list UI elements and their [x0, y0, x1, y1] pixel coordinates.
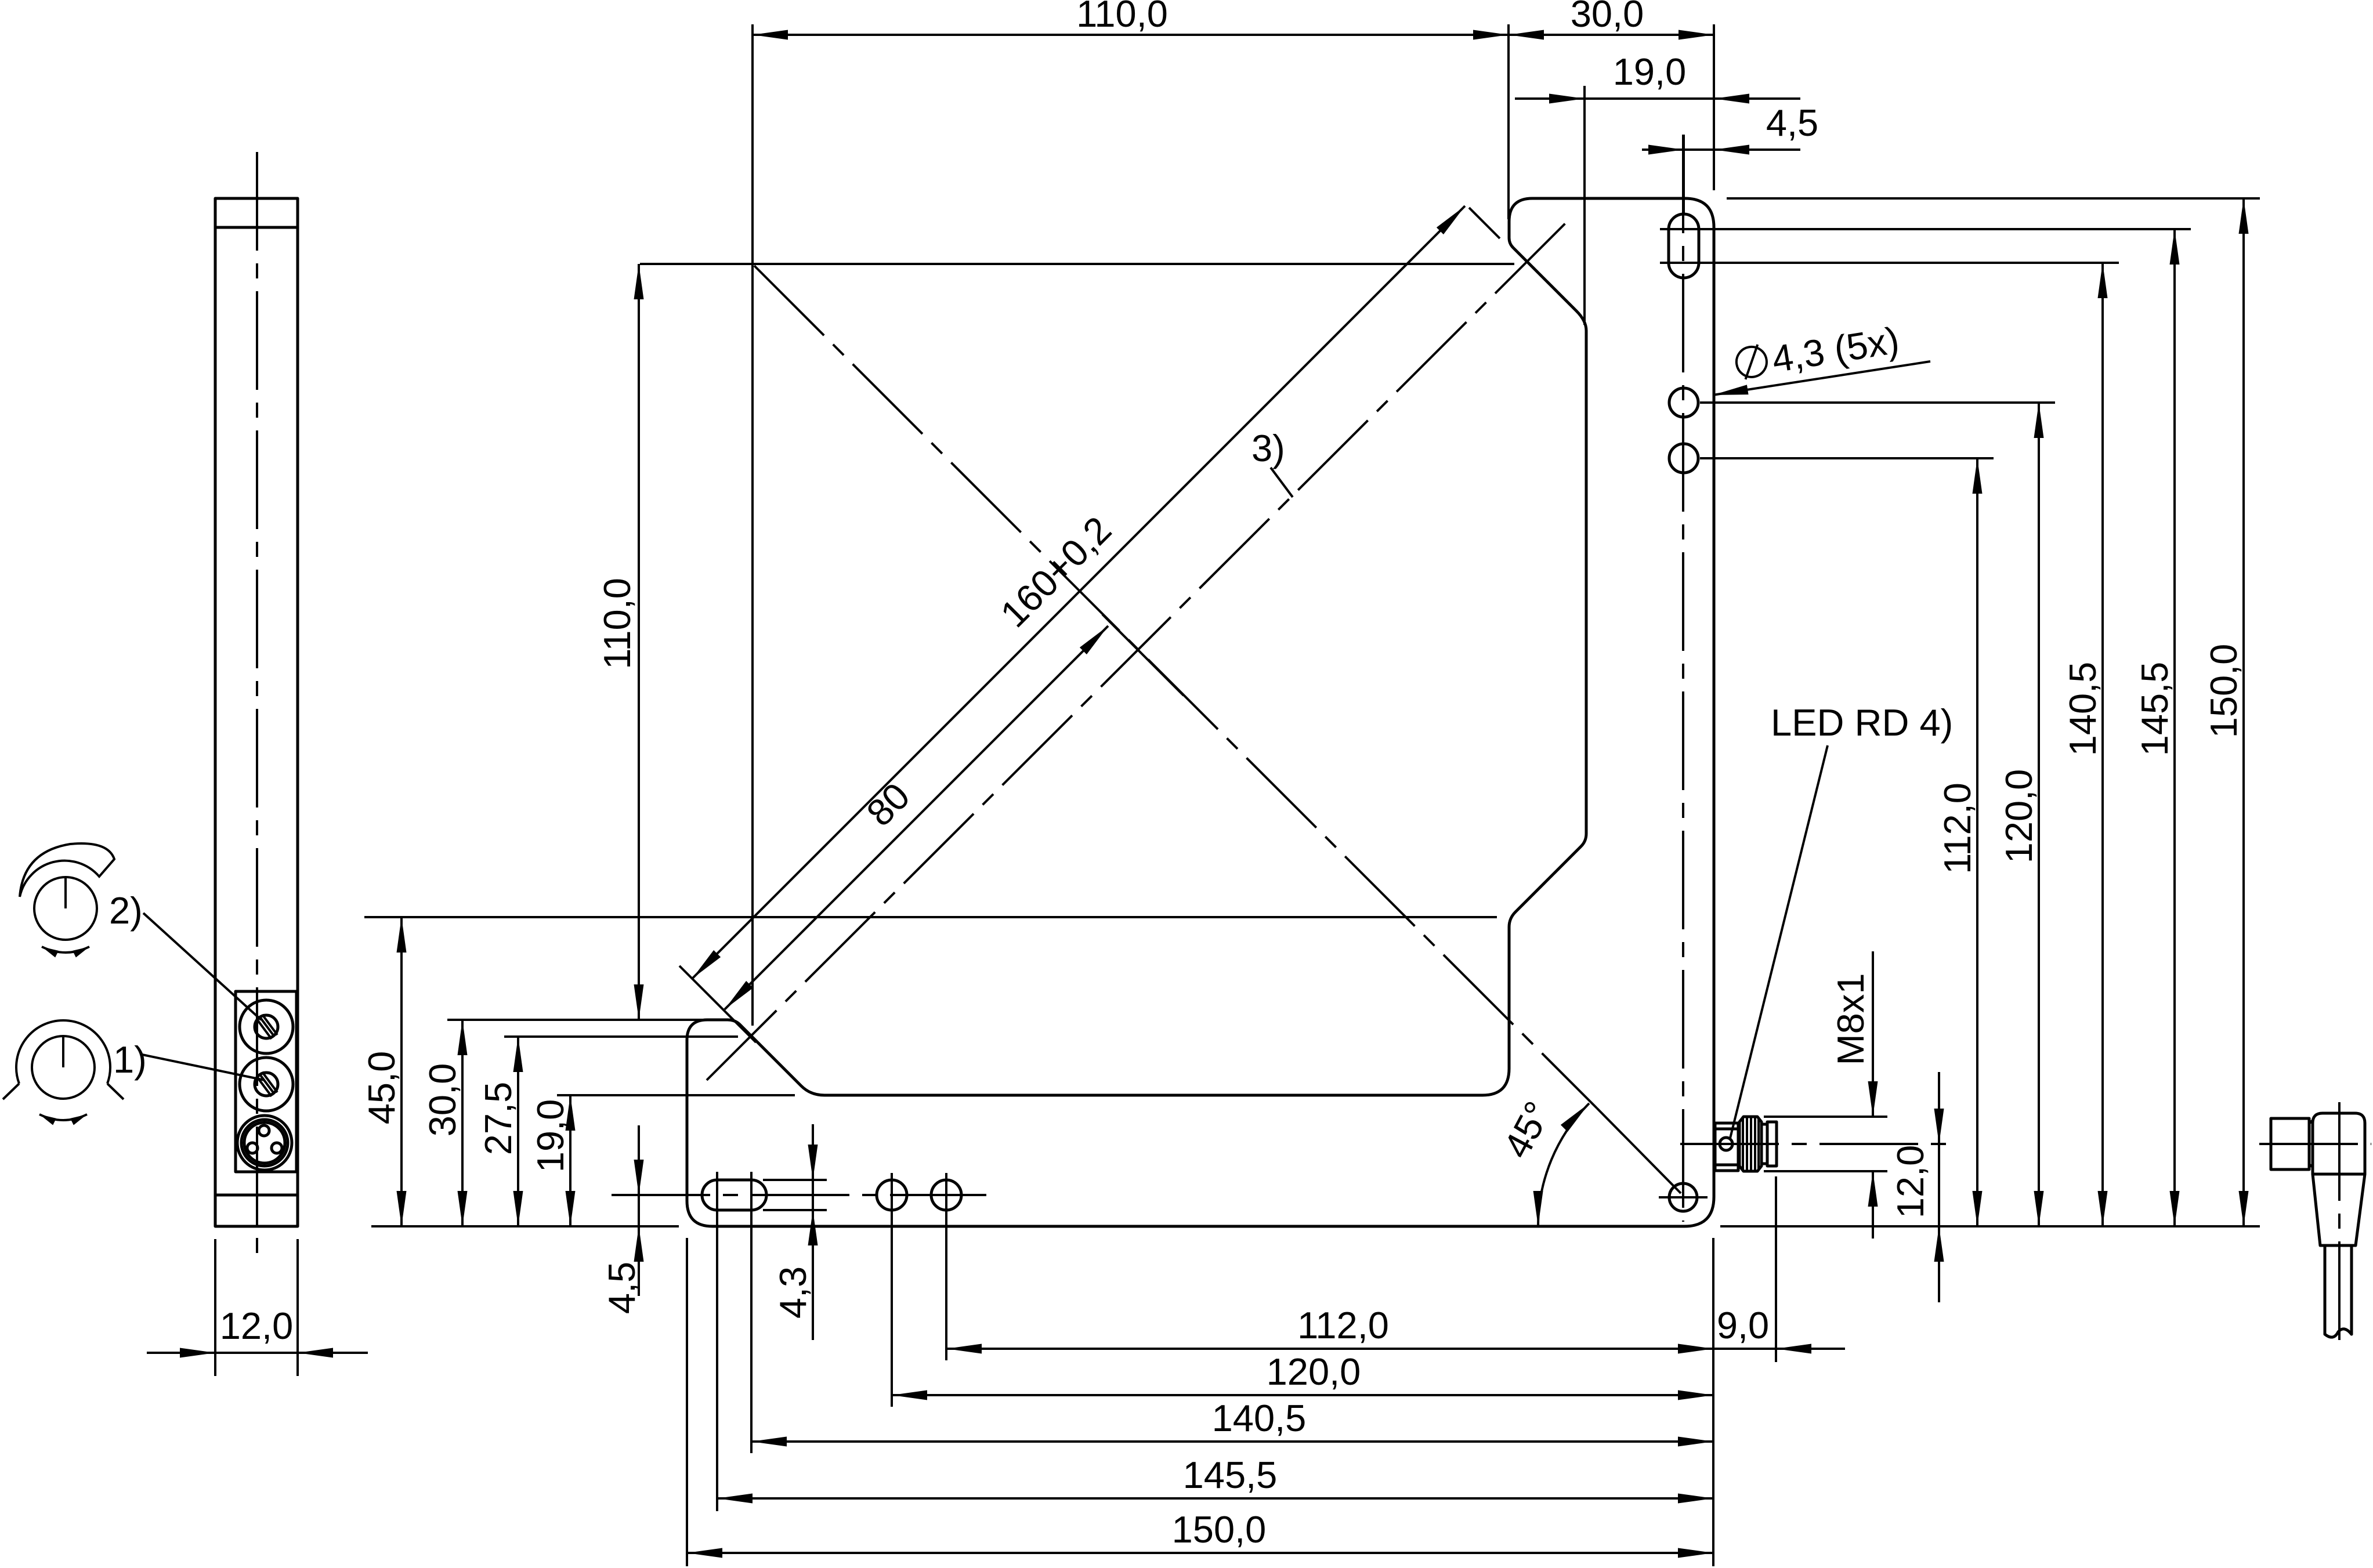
slot top tick [763, 1179, 827, 1181]
svg-text:110,0: 110,0 [596, 578, 638, 669]
dimension 45,0 line [400, 917, 403, 1226]
bottom hole 1 (dia 4,3) [877, 1180, 907, 1210]
extension line y=395 right [1708, 228, 2191, 230]
potentiometer P1 screw slot [256, 1072, 277, 1096]
svg-text:145,5: 145,5 [1183, 1454, 1278, 1496]
cable break [2325, 1329, 2352, 1337]
potentiometer P2 screw head [255, 1015, 278, 1038]
measuring line A (optical axis) [707, 220, 1568, 1080]
extension line y=2114 left [371, 1225, 679, 1227]
svg-text:145,5: 145,5 [2133, 662, 2176, 756]
leader from LED RD 4) to LED [1730, 745, 1828, 1138]
dimension 160+0,2 line [692, 206, 1465, 979]
M8 connector centerline [1680, 1143, 1954, 1145]
dimension 4,3 bottom [812, 1180, 814, 1210]
potentiometer P2 (top) outer [240, 1000, 293, 1053]
svg-text:4,3: 4,3 [772, 1266, 814, 1319]
strain relief taper [2313, 1174, 2365, 1245]
M8 thread ridges [1743, 1117, 1759, 1171]
M8 connector face pins [259, 1125, 269, 1136]
dimension 160+0,2 SW tick [679, 966, 756, 1042]
dimension 150,0 right [2242, 198, 2245, 1226]
dimension M8x1 [1872, 951, 1874, 1117]
svg-text:30,0: 30,0 [1571, 0, 1644, 35]
potentiometer P2 screw slot [256, 1015, 277, 1039]
knob symbol 1) pointer [62, 1036, 64, 1067]
dimension text 45deg [1495, 1095, 1560, 1165]
bottom hole centerline [612, 1194, 986, 1196]
dimension 12,0 at M8 [1938, 1144, 1940, 1226]
M8 connector face (side view) outer rings [237, 1116, 292, 1170]
extension line x=1631 bottom [945, 1173, 947, 1360]
dimension text 110,0 vertical [596, 578, 638, 669]
extension line y=790 right [1700, 457, 1994, 459]
svg-text:12,0: 12,0 [220, 1305, 294, 1347]
extension line x=1184 bottom [686, 1238, 688, 1566]
dimension 120,0 bottom [892, 1394, 1713, 1396]
corner hole (dia 4,3) [1669, 1183, 1697, 1211]
leader from 2) to P2 screw [143, 913, 261, 1020]
potentiometer P1 (middle) outer [240, 1058, 293, 1111]
dimension 140,5 right [2101, 263, 2104, 1226]
svg-text:M8x1: M8x1 [1829, 973, 1872, 1066]
svg-text:110,0: 110,0 [1076, 0, 1168, 35]
knob symbol 2) swing arrow [42, 947, 89, 953]
dimension 160+0,2 NE tick [1469, 208, 1500, 238]
dimension 4,5 bottom-left [624, 1194, 685, 1196]
dimension 9,0 bottom [1713, 1348, 1776, 1350]
housing body top edge (45 mm level) [364, 916, 1497, 918]
dimension 110,0 top line [753, 34, 1509, 36]
dimension 4,5 top [1683, 135, 1685, 215]
dimension text 19,0 [529, 1099, 571, 1173]
corner hole horizontal tick [1659, 1196, 1708, 1198]
extension line x=2954 top [1713, 24, 1715, 190]
dimension 30,0 line [461, 1020, 464, 1226]
svg-text:LED RD 4): LED RD 4) [1771, 701, 1953, 744]
knob symbol 1) guard left foot [3, 1084, 19, 1099]
svg-text:9,0: 9,0 [1717, 1304, 1769, 1346]
svg-text:120,0: 120,0 [1998, 769, 2040, 864]
knob symbol 1) swing arrow [39, 1114, 87, 1120]
extension line y=1758 (30 level) [447, 1019, 711, 1021]
potentiometer P1 screw head [255, 1073, 278, 1096]
dimension 19,0 top [1585, 97, 1714, 100]
label dia 4,3 (5x) text [1734, 318, 1902, 386]
dimension 112,0 right [1976, 458, 1978, 1226]
M8 connector collar [1715, 1123, 1738, 1171]
extension line y=342 right [1727, 197, 2260, 200]
dimension text 27,5 [477, 1082, 519, 1156]
dimension 80 NE tick [1102, 614, 1184, 696]
knob symbol 1) guard right foot [107, 1084, 124, 1099]
knob symbol 2) rotation crescent [20, 843, 114, 897]
side view top cap line [215, 226, 298, 229]
dimension 145,5 right [2173, 229, 2176, 1226]
extension line y=453 right [1708, 262, 2119, 264]
svg-text:27,5: 27,5 [477, 1082, 519, 1156]
M8 connector groove [1761, 1124, 1767, 1164]
leader from 3) to measuring line [1271, 468, 1293, 497]
svg-text:120,0: 120,0 [1267, 1350, 1361, 1393]
svg-text:19,0: 19,0 [529, 1099, 571, 1173]
45 deg arc [1538, 1103, 1589, 1226]
svg-text:30,0: 30,0 [421, 1063, 464, 1137]
svg-text:2): 2) [109, 889, 143, 932]
dimension 150,0 bottom [687, 1552, 1713, 1554]
dimension 12,0 line [215, 1352, 298, 1354]
svg-text:140,5: 140,5 [2061, 662, 2104, 756]
svg-text:45,0: 45,0 [360, 1051, 403, 1125]
M8 connector end flange [1767, 1122, 1777, 1166]
dimension text 45,0 [360, 1051, 403, 1125]
extension line y=1787 (27,5 level) [504, 1035, 738, 1038]
M8 thread section [1739, 1117, 1761, 1171]
LED RD on collar [1720, 1138, 1732, 1150]
leader from 1) to P1 screw [142, 1055, 265, 1080]
frame outline [687, 198, 1714, 1226]
extension line y=2114 right [1720, 1225, 2260, 1227]
slot bottom tick [763, 1209, 827, 1211]
elbow body [2313, 1113, 2365, 1174]
side view connector/pot panel box [236, 991, 296, 1172]
label dia 4,3 (5x) leader [1713, 361, 1930, 395]
svg-text:150,0: 150,0 [1172, 1508, 1267, 1551]
right slot circle ticks [1660, 228, 1708, 230]
extension line x=2731 (19 step) [1583, 86, 1586, 325]
dimension text 4,3 bottom [772, 1266, 814, 1319]
svg-text:150,0: 150,0 [2202, 644, 2245, 738]
extension line y=694 right [1700, 401, 2055, 404]
side view housing bar outline [215, 198, 298, 1226]
dimension 120,0 right [2038, 403, 2040, 1226]
svg-text:140,5: 140,5 [1212, 1397, 1307, 1439]
dimension text 160+0,2 [992, 508, 1119, 635]
knob symbol 1) guard arc [16, 1020, 110, 1084]
dimension 12,0 extension lines [214, 1239, 216, 1376]
dimension 140,5 bottom [751, 1440, 1713, 1443]
dimension 80 line [725, 626, 1108, 1009]
extension line x=1537 bottom [891, 1173, 893, 1407]
svg-text:4,5: 4,5 [1766, 102, 1818, 144]
svg-text:1): 1) [113, 1038, 147, 1081]
side view centerline [256, 152, 258, 1262]
extension line x=1295 bottom [750, 1172, 753, 1453]
nut neck [2309, 1121, 2313, 1167]
extension line y=1888 (19 level) [557, 1094, 795, 1096]
dimension 19,0 line [569, 1095, 571, 1226]
extension line x=1236 bottom [716, 1172, 718, 1511]
svg-text:112,0: 112,0 [1297, 1304, 1389, 1346]
knob symbol 1) circle [32, 1036, 95, 1099]
bottom hole 2 (dia 4,3) [931, 1180, 961, 1210]
extension line x=1297 (slot center / beam end) [751, 24, 754, 1026]
dimension 30,0 top line [1509, 34, 1714, 36]
dimension text 30,0 [421, 1063, 464, 1137]
connector horizontal centerline [2259, 1143, 2371, 1145]
side view bottom cap line [215, 1194, 298, 1197]
svg-text:19,0: 19,0 [1613, 50, 1687, 93]
coupling nut [2271, 1118, 2309, 1169]
dimension text 4,5 bottom-left [601, 1262, 643, 1314]
right arm slot (oblong hole) [1669, 214, 1699, 278]
right arm hole 1 (dia 4,3) [1669, 388, 1698, 417]
knob symbol 2) pointer [64, 877, 67, 908]
extension line x=2600 (field edge) [1507, 24, 1510, 219]
measuring line B (optical axis) [754, 266, 1597, 1108]
dimension 145,5 bottom [717, 1497, 1713, 1500]
cable [2324, 1245, 2327, 1334]
extension line x=3061 (connector end) [1775, 1176, 1777, 1362]
svg-text:12,0: 12,0 [1889, 1145, 1931, 1219]
dimension 112,0 bottom [946, 1348, 1713, 1350]
knob symbol 2) circle [34, 877, 97, 940]
dimension text 80 [858, 774, 918, 834]
bottom slot (oblong hole 4,3) [702, 1180, 766, 1210]
dimension M8x1 ticks [1764, 1116, 1887, 1118]
extension line x=2953 bottom [1712, 1238, 1714, 1566]
dimension 27,5 line [517, 1037, 519, 1226]
dimension 110,0 vertical line [638, 264, 640, 1020]
right arm hole 2 (dia 4,3) [1669, 444, 1698, 473]
connector vertical centerline [2338, 1102, 2341, 1352]
svg-text:112,0: 112,0 [1936, 783, 1978, 874]
svg-text:3): 3) [1251, 427, 1285, 469]
right arm hole centerline [1682, 135, 1684, 1222]
extension line y=455 (field top) [640, 263, 1514, 265]
svg-text:4,5: 4,5 [601, 1262, 643, 1314]
